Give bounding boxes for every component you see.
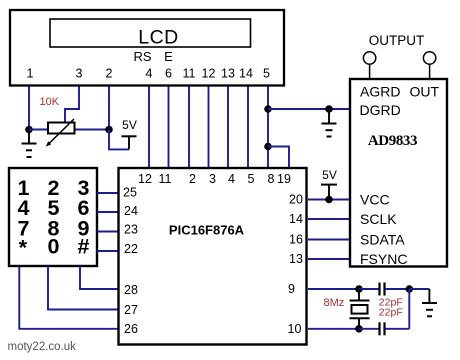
- svg-text:8Mz: 8Mz: [324, 297, 345, 309]
- svg-text:23: 23: [124, 223, 138, 237]
- wire keypad col2 to PIC pin27: [48, 267, 118, 310]
- svg-text:SDATA: SDATA: [360, 232, 405, 248]
- svg-text:25: 25: [123, 186, 137, 200]
- node pot left junction: [25, 126, 33, 134]
- svg-text:2: 2: [106, 67, 113, 81]
- AD9833 box: [350, 79, 447, 267]
- wire right rail to ground: [409, 288, 429, 290]
- wire keypad col1 to PIC pin26: [19, 267, 118, 329]
- wire keypad row2 to PIC pin24: [97, 211, 118, 213]
- ground at pot left: [22, 130, 37, 158]
- wire LCD pin13 to PIC pin4: [227, 87, 229, 168]
- wire PIC pin14 to AD9833 SCLK: [308, 218, 349, 220]
- keypad box: [9, 168, 97, 266]
- wire pot right terminal: [76, 129, 110, 131]
- svg-text:27: 27: [124, 303, 138, 317]
- wire keypad row4 to PIC pin22: [97, 250, 118, 252]
- svg-text:10K: 10K: [40, 96, 60, 108]
- svg-text:11: 11: [159, 172, 172, 186]
- svg-text:5V: 5V: [122, 118, 137, 132]
- crystal 8MHz: [350, 289, 370, 329]
- svg-text:22: 22: [124, 242, 138, 256]
- wire keypad row1 to PIC pin25: [97, 192, 118, 194]
- wire LCD pin12 to PIC pin3: [208, 87, 210, 168]
- svg-text:14: 14: [289, 212, 303, 226]
- svg-text:*: *: [19, 236, 28, 260]
- node PIC pin19 branch: [264, 143, 272, 151]
- node right rail top: [406, 285, 414, 293]
- capacitor 22pF bottom: [380, 322, 385, 335]
- svg-text:#: #: [78, 235, 90, 259]
- node crystal bottom: [355, 325, 363, 333]
- svg-text:13: 13: [289, 252, 303, 266]
- node VCC 5V junction: [325, 196, 333, 204]
- wire PIC pin13 to AD9833 FSYNC: [308, 258, 349, 260]
- right rail wire: [408, 289, 410, 329]
- svg-text:26: 26: [124, 322, 138, 336]
- svg-text:4: 4: [228, 172, 235, 186]
- wire PIC pin20 to AD9833 VCC: [308, 199, 349, 201]
- svg-text:5: 5: [248, 172, 255, 186]
- node DGRD ground junction: [325, 105, 333, 113]
- svg-text:24: 24: [124, 204, 138, 218]
- LCD module box: [10, 10, 284, 86]
- svg-text:OUT: OUT: [410, 84, 440, 100]
- wire LCD pin4 to PIC pin12: [148, 87, 150, 168]
- svg-text:E: E: [164, 49, 173, 64]
- svg-text:5V: 5V: [322, 168, 337, 182]
- wire PIC pin9 to crystal: [308, 288, 359, 290]
- LCD display window: [50, 19, 251, 47]
- svg-text:1: 1: [27, 67, 34, 81]
- svg-text:AGRD: AGRD: [360, 84, 400, 100]
- wire crystal top to cap: [359, 288, 379, 290]
- wire keypad row3 to PIC pin23: [97, 231, 118, 233]
- svg-text:19: 19: [277, 172, 291, 186]
- svg-text:RS: RS: [133, 49, 151, 64]
- svg-text:DGRD: DGRD: [360, 102, 401, 118]
- svg-text:20: 20: [289, 193, 303, 207]
- capacitor 22pF top: [380, 283, 385, 296]
- wire crystal bottom to cap: [359, 328, 379, 330]
- svg-text:9: 9: [288, 282, 295, 296]
- svg-text:0: 0: [48, 235, 60, 259]
- OUT output terminal: [423, 52, 435, 78]
- svg-text:12: 12: [138, 172, 152, 186]
- potentiometer 10K: [46, 119, 75, 147]
- node ground net branch: [264, 105, 272, 113]
- svg-text:10: 10: [288, 322, 302, 336]
- wire cap to right rail: [385, 288, 409, 290]
- wire keypad col3 to PIC pin28: [80, 267, 118, 289]
- wire LCD pin3 to pot wiper: [65, 87, 79, 122]
- svg-text:5: 5: [263, 67, 270, 81]
- svg-text:4: 4: [146, 67, 153, 81]
- PIC16F876A box: [119, 168, 307, 345]
- svg-text:3: 3: [209, 172, 216, 186]
- svg-text:OUTPUT: OUTPUT: [369, 33, 425, 48]
- svg-text:PIC16F876A: PIC16F876A: [169, 223, 245, 238]
- svg-text:3: 3: [76, 67, 83, 81]
- svg-text:8: 8: [268, 172, 275, 186]
- node crystal top: [355, 285, 363, 293]
- wire LCD pin2 down: [108, 87, 110, 130]
- svg-text:moty22.co.uk: moty22.co.uk: [8, 341, 77, 353]
- 5V supply at LCD: [122, 118, 137, 149]
- svg-text:22pF: 22pF: [379, 307, 403, 319]
- wire LCD pin11 to PIC pin2: [188, 87, 190, 168]
- svg-text:AD9833: AD9833: [368, 133, 417, 149]
- wire LCD pin5 to PIC pin8: [267, 87, 269, 168]
- svg-text:14: 14: [239, 67, 253, 81]
- svg-text:13: 13: [221, 67, 235, 81]
- svg-text:LCD: LCD: [138, 26, 179, 48]
- wire PIC pin16 to AD9833 SDATA: [308, 239, 349, 241]
- svg-text:6: 6: [165, 67, 172, 81]
- wire LCD pin14 to PIC pin5: [247, 87, 249, 168]
- wire PIC pin10 to crystal bottom: [308, 328, 359, 330]
- AGRD output terminal: [363, 52, 375, 78]
- ground at DGRD: [322, 109, 337, 137]
- wire ground net to DGRD: [268, 108, 349, 110]
- svg-text:SCLK: SCLK: [360, 211, 397, 227]
- wire pot right node to 5V: [109, 130, 129, 150]
- svg-text:16: 16: [289, 233, 303, 247]
- svg-text:2: 2: [189, 172, 196, 186]
- svg-text:12: 12: [202, 67, 216, 81]
- wire bottom cap to right rail: [385, 328, 409, 330]
- wire LCD pin1 to pot left node: [28, 87, 30, 130]
- ground at crystal rail: [422, 289, 437, 316]
- 5V supply at VCC: [321, 168, 337, 200]
- node pot right junction: [105, 126, 113, 134]
- svg-text:28: 28: [124, 283, 138, 297]
- svg-text:11: 11: [183, 67, 196, 81]
- svg-text:VCC: VCC: [360, 192, 390, 208]
- wire LCD pin6 to PIC pin11: [168, 87, 170, 168]
- wire pot left terminal: [29, 129, 47, 131]
- wire branch to PIC pin19: [268, 147, 289, 168]
- svg-text:FSYNC: FSYNC: [360, 251, 407, 267]
